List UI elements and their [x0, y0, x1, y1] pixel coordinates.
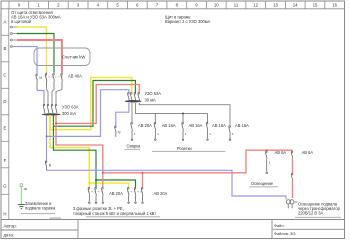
left ruler: [1, 9, 9, 220]
svg-text:A: A: [3, 20, 6, 25]
note: sheet title: [165, 14, 211, 24]
note lighting basement: [298, 201, 341, 215]
wire red lighting feeder: [103, 150, 293, 173]
wire blue УЗО1 out to УЗО2: [47, 90, 129, 137]
wire sockets bus: [135, 103, 207, 114]
svg-text:АВ 6А: АВ 6А: [275, 150, 287, 155]
wire blue N down: [46, 136, 48, 161]
wire red УЗО1 out: [56, 85, 139, 124]
breaker АВ 6А light2: [291, 151, 293, 159]
svg-text:подвале гаража: подвале гаража: [25, 206, 56, 211]
switch N lower: [45, 161, 47, 170]
PE connector square: [20, 184, 23, 187]
svg-text:Файл:: Файл:: [274, 223, 285, 228]
svg-text:АВ 6А: АВ 6А: [302, 150, 314, 155]
svg-text:дата:: дата:: [4, 233, 15, 238]
svg-text:11: 11: [234, 3, 239, 8]
svg-text:E: E: [3, 126, 6, 131]
pole marks: [134, 132, 271, 164]
svg-text:300 mA: 300 mA: [62, 111, 76, 116]
transformer 220/12: [286, 200, 297, 209]
svg-text:13: 13: [273, 3, 278, 8]
svg-text:Автор:: Автор:: [4, 223, 17, 228]
svg-text:15: 15: [313, 3, 318, 8]
svg-text:ос: ос: [24, 187, 28, 191]
note: feed description top-left: [11, 10, 61, 24]
breaker АВ 40А pole 2: [53, 73, 55, 88]
wire green to group2: [96, 180, 136, 188]
switch light2: [291, 173, 293, 181]
wire to breaker 5: [139, 103, 230, 126]
3ph group1 pole2: [95, 188, 97, 204]
svg-text:F: F: [4, 158, 7, 163]
common trip dashes group2: [127, 191, 143, 193]
underline Освещение: [249, 186, 278, 188]
wire N blue feed: [17, 47, 37, 74]
underline Розетки: [152, 150, 226, 152]
svg-text:АВ 20А: АВ 20А: [154, 191, 168, 196]
svg-text:АВ 16А: АВ 16А: [162, 123, 176, 128]
wire jogs into УЗО1: [47, 88, 63, 105]
svg-text:C: C: [3, 73, 6, 78]
svg-text:АВ 20А: АВ 20А: [138, 123, 152, 128]
3ph group2 pole2: [134, 188, 136, 204]
svg-text:30 мА: 30 мА: [145, 98, 157, 103]
gray mark near bottom left: [50, 217, 62, 219]
switch N welding: [115, 126, 117, 137]
junction red 1: [55, 122, 57, 124]
junction blue: [46, 135, 48, 137]
junction red 3: [142, 172, 144, 174]
svg-text:токарный станок 5 кВт и сверли: токарный станок 5 кВт и сверлильный 1 кВ…: [73, 211, 156, 216]
ground: [18, 205, 25, 209]
common trip dashes АВ 40А: [45, 76, 63, 78]
svg-text:14: 14: [293, 3, 298, 8]
RCD УЗО2 63А 30мА: [128, 93, 140, 101]
breaker АВ 40А pole 3: [61, 73, 63, 88]
breaker АВ 20А welding: [131, 122, 133, 140]
wire L1 yellow feed: [17, 27, 47, 73]
wire yellow УЗО1 out: [50, 78, 132, 130]
breaker АВ 16А fifth: [229, 126, 231, 141]
svg-text:Освещение: Освещение: [251, 181, 274, 186]
wire blue N bus to transformer: [47, 170, 287, 199]
underline ground note: [21, 213, 55, 215]
underline 3ph note: [86, 216, 160, 218]
top ruler numbers: [18, 3, 338, 8]
svg-text:H: H: [3, 212, 6, 217]
switch N disconnect below meter: [36, 73, 38, 91]
wire yellow to group1: [50, 115, 89, 188]
common trip dashes group1: [88, 191, 104, 193]
top ruler: [1, 1, 345, 9]
wire red to transformer: [292, 181, 294, 198]
svg-text:АВ 16А: АВ 16А: [189, 123, 203, 128]
svg-text:АВ 16А: АВ 16А: [235, 123, 249, 128]
note ground: [25, 201, 56, 211]
underline transformer note: [295, 216, 341, 218]
3ph group2 pole1: [127, 188, 129, 204]
УЗО1 bar: [42, 113, 60, 115]
underline Сварка: [125, 148, 141, 150]
wire red to group2: [142, 173, 144, 188]
label УЗО2: [145, 91, 162, 103]
svg-text:АВ 20А: АВ 20А: [109, 191, 123, 196]
wire yellow to group2: [89, 183, 128, 188]
svg-text:Файлов: 3/3: Файлов: 3/3: [274, 231, 295, 236]
RCD УЗО1 63А 300мА: [43, 104, 57, 113]
breaker АВ 6А light1: [266, 151, 268, 174]
junction red lighting bus: [266, 149, 268, 151]
svg-text:УЗО 63А: УЗО 63А: [62, 104, 79, 109]
wire N into УЗО1: [37, 91, 44, 105]
svg-text:Сварка: Сварка: [127, 143, 142, 148]
svg-text:220В/12 В 3А: 220В/12 В 3А: [298, 210, 324, 215]
breaker АВ 16А socket 3: [206, 114, 208, 141]
breaker АВ 16А socket 2: [182, 114, 184, 141]
svg-text:АВ 40А: АВ 40А: [68, 74, 82, 79]
УЗО2 bar: [125, 100, 141, 103]
wire L2 green feed: [17, 34, 54, 73]
PE wire: [20, 187, 22, 205]
junction sockets bus: [182, 113, 184, 115]
wire stubs at feed: [11, 26, 18, 47]
svg-text:АВ 16А: АВ 16А: [212, 123, 226, 128]
title block texts: [4, 223, 17, 237]
wire green to group1: [53, 126, 96, 187]
meter Счетчик kW box: [34, 48, 90, 66]
svg-text:Вариант 2 с УЗО 300мА: Вариант 2 с УЗО 300мА: [165, 19, 211, 24]
wire L3 red feed: [17, 40, 62, 73]
3ph group1 pole3: [102, 188, 104, 204]
wire red to switch: [292, 159, 294, 174]
wire green УЗО1 out: [53, 81, 135, 127]
wire red to group1: [56, 123, 103, 187]
svg-text:12: 12: [253, 3, 258, 8]
3ph group1 pole1: [88, 188, 90, 204]
junction red 2: [102, 172, 104, 174]
breaker АВ 40А pole 1: [45, 73, 47, 88]
note 3ph sockets: [73, 206, 156, 216]
junction green: [95, 179, 97, 181]
svg-text:10: 10: [214, 3, 219, 8]
svg-text:Счетчик kW: Счетчик kW: [62, 54, 86, 59]
svg-text:Розетки: Розетки: [177, 146, 192, 151]
wire blue УЗО2 N out: [116, 103, 129, 126]
svg-text:УЗО 63А: УЗО 63А: [145, 91, 162, 96]
title block: [1, 220, 345, 239]
label УЗО1: [62, 104, 79, 116]
breaker АВ 16А socket 1: [154, 114, 156, 141]
left ruler letters: [3, 20, 7, 217]
svg-text:16: 16: [332, 3, 337, 8]
3ph group2 pole3: [141, 188, 143, 204]
svg-text:в щитовой: в щитовой: [11, 19, 32, 24]
wire welding phase: [131, 103, 133, 123]
junction yellow: [88, 182, 90, 184]
svg-text:B: B: [3, 46, 6, 51]
svg-text:D: D: [3, 99, 6, 104]
